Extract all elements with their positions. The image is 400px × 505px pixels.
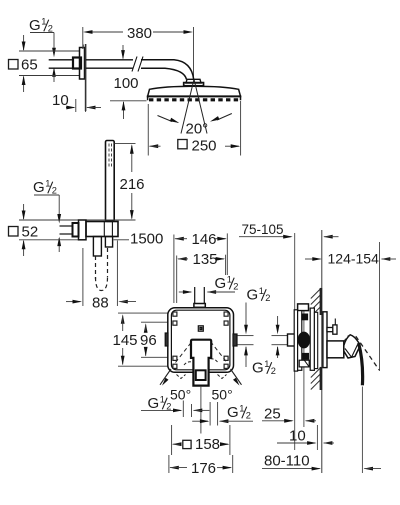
label 50 right	[212, 386, 233, 402]
label square 65	[9, 57, 38, 74]
label 50 left	[170, 386, 191, 402]
plaster min line	[294, 233, 296, 450]
svg-text:124-154: 124-154	[328, 250, 380, 266]
svg-text:1: 1	[45, 179, 50, 189]
dim 380	[83, 25, 193, 42]
dim 80-110 label	[264, 452, 310, 469]
body front extension line	[303, 310, 305, 427]
union top extension line	[19, 219, 136, 221]
bottom port right G1/2 label	[227, 404, 251, 422]
shower arm nut	[73, 58, 81, 69]
hand shower holder body	[86, 222, 118, 237]
head bottom extension line	[110, 100, 147, 102]
hand shower G1/2 leader	[34, 195, 61, 252]
dim 176	[169, 460, 232, 477]
label 1500 leader	[114, 239, 130, 241]
dim 250 extension lines	[148, 101, 240, 156]
svg-text:1: 1	[160, 395, 165, 405]
side stub G1/2 lower label	[252, 359, 276, 377]
dim 80-110	[262, 467, 381, 471]
svg-text:50°: 50°	[212, 386, 233, 402]
valve body top stub	[298, 304, 309, 311]
dim 88	[66, 294, 136, 311]
svg-text:1: 1	[41, 17, 46, 27]
flange top extension line	[19, 50, 79, 52]
diverter knob side	[327, 319, 337, 335]
bottom port left G1/2 label	[148, 395, 172, 413]
dim 146	[174, 231, 227, 248]
dim 10 label	[289, 428, 306, 445]
spray angle arrows	[158, 114, 232, 124]
svg-text:2: 2	[265, 293, 270, 303]
escutcheon side view	[323, 312, 327, 368]
bottom port left G1/2 dim	[141, 401, 209, 418]
wall line top-left	[84, 44, 86, 111]
svg-text:65: 65	[21, 57, 38, 74]
shower arm pipe	[49, 60, 74, 68]
plate screws right column	[224, 312, 228, 368]
closed handle extension line	[361, 387, 363, 474]
lever handle side view	[344, 335, 360, 358]
valve cartridge	[298, 332, 311, 349]
valve detail dark upper	[302, 314, 308, 320]
dim 176 extension lines	[169, 455, 233, 473]
tube break marks	[132, 57, 143, 72]
rough wall line lower	[316, 425, 318, 450]
lever handle square hole	[196, 370, 206, 380]
svg-text:145: 145	[113, 332, 138, 349]
dim 145 top extension	[118, 312, 168, 314]
shower hose dashed	[96, 248, 108, 291]
ball joint	[184, 79, 204, 86]
label 20 deg	[186, 120, 209, 137]
valve detail dark lower	[303, 353, 309, 359]
diverter button	[198, 326, 203, 331]
mixer top stub G1/2 label	[215, 275, 239, 293]
svg-text:135: 135	[193, 251, 218, 268]
valve body bar B	[298, 311, 302, 371]
handle swing dashed lines	[176, 342, 228, 363]
svg-text:2: 2	[48, 23, 53, 33]
dim 75-105	[239, 235, 339, 239]
svg-text:20°: 20°	[186, 120, 209, 137]
svg-text:G: G	[227, 404, 239, 421]
svg-text:52: 52	[22, 224, 39, 241]
svg-text:380: 380	[127, 25, 152, 42]
dim 380 extension ticks	[83, 27, 194, 80]
finished wall line	[321, 230, 323, 473]
mixer cover plate	[171, 310, 230, 370]
mixer top stub	[194, 287, 205, 307]
lever open position dashed	[344, 335, 379, 370]
label square 52	[9, 224, 39, 241]
dim 145	[113, 314, 138, 365]
dim 124-154 right extension	[379, 242, 381, 371]
flange bottom extension line	[19, 75, 79, 77]
lever grip side view	[359, 343, 363, 385]
dim 88 extension lines	[83, 241, 118, 307]
dim 158 extension lines	[172, 425, 230, 455]
wall hatch upper	[311, 288, 322, 317]
svg-text:96: 96	[140, 332, 157, 349]
dim 146 extension lines	[174, 233, 227, 303]
shower arm G1/2 label	[29, 17, 53, 35]
dim 100 text	[114, 75, 139, 92]
svg-text:2: 2	[271, 366, 276, 376]
head shower spray face	[149, 98, 240, 101]
left side clamp tab	[165, 333, 168, 346]
spray angle rays 20 deg	[181, 80, 207, 134]
svg-text:1: 1	[264, 359, 269, 369]
svg-text:10: 10	[289, 428, 306, 445]
dim 52 arrows	[22, 204, 26, 256]
svg-text:G: G	[148, 395, 160, 412]
svg-text:216: 216	[120, 176, 145, 193]
svg-text:100: 100	[114, 75, 139, 92]
svg-text:1: 1	[239, 404, 244, 414]
dim 96 top extension	[141, 321, 168, 323]
holder outlet nipple left	[93, 237, 101, 257]
dim 216 top extension	[115, 143, 136, 145]
dim 96 bottom extension	[141, 356, 168, 358]
hand shower handle	[106, 141, 115, 222]
mixer top stub G1/2 arrows	[179, 290, 235, 294]
hand shower spray face dashes	[109, 144, 112, 169]
svg-text:G: G	[29, 17, 41, 34]
svg-text:G: G	[247, 287, 259, 304]
valve front outlet stub	[288, 334, 295, 346]
dim 124-154	[305, 250, 396, 266]
dim 250	[149, 138, 241, 155]
dim 100 arrows	[121, 45, 125, 119]
svg-text:176: 176	[191, 460, 216, 477]
dashed swing hooks	[177, 359, 227, 379]
plate tab extension lines	[238, 336, 254, 345]
valve body bar A	[294, 310, 297, 371]
svg-text:250: 250	[192, 138, 217, 155]
svg-text:2: 2	[166, 401, 171, 411]
holder outlet nipple right	[105, 237, 112, 248]
side stub G1/2 lower arrows	[276, 316, 280, 358]
angle ray right 50deg	[231, 369, 242, 386]
label 1500	[130, 231, 163, 248]
svg-text:1: 1	[227, 275, 232, 285]
bottom port right G1/2 dim	[192, 402, 253, 426]
union bottom extension line	[19, 239, 78, 241]
valve body mid plate	[310, 308, 314, 370]
dim 216	[120, 144, 145, 219]
dim 135	[177, 251, 225, 268]
svg-text:80-110: 80-110	[264, 452, 310, 469]
plate screws left column	[173, 312, 177, 368]
union nut	[73, 223, 79, 237]
lever hub side view	[327, 341, 344, 358]
dim 75-105 label	[242, 222, 284, 237]
svg-text:1: 1	[259, 286, 264, 296]
svg-text:146: 146	[192, 231, 217, 248]
shower arm outer tube	[86, 60, 133, 68]
svg-text:2: 2	[52, 185, 57, 195]
dim 10 below flange	[52, 92, 101, 112]
angle ray left 50deg	[160, 369, 171, 386]
shower arm curved piece	[141, 60, 194, 80]
head shower body	[147, 86, 242, 100]
mixer rough-in box outline	[168, 308, 234, 373]
dim 96	[140, 323, 157, 356]
side stub G1/2 upper label	[247, 286, 271, 304]
svg-text:2: 2	[233, 281, 238, 291]
hand shower G1/2 label	[33, 179, 57, 197]
valve body back bar	[314, 312, 317, 368]
dim 135 extension lines	[177, 255, 226, 303]
dim 10	[277, 441, 334, 445]
valve detail box with cross	[299, 360, 309, 367]
svg-text:2: 2	[246, 410, 251, 420]
svg-text:75-105: 75-105	[242, 222, 284, 237]
union supply pipe	[60, 226, 73, 234]
dim 158	[172, 436, 230, 453]
side stub extension lines	[272, 336, 288, 345]
dim 25	[262, 419, 316, 423]
svg-text:G: G	[215, 275, 227, 292]
shower arm wall flange	[80, 48, 85, 80]
union wall flange	[79, 220, 87, 240]
dim 25 label	[264, 405, 281, 422]
side stub G1/2 upper arrows	[244, 303, 248, 368]
handle centerline	[200, 386, 202, 434]
mixer lever handle front	[191, 340, 211, 386]
svg-text:25: 25	[264, 405, 281, 422]
dim 145 bottom extension	[118, 365, 168, 367]
svg-text:1500: 1500	[130, 231, 163, 248]
svg-text:50°: 50°	[170, 386, 191, 402]
shower arm G1/2 leader	[30, 33, 56, 83]
wall hatch lower	[311, 367, 322, 390]
svg-text:10: 10	[52, 92, 69, 109]
svg-text:G: G	[33, 179, 45, 196]
svg-text:G: G	[252, 360, 264, 377]
svg-text:158: 158	[195, 436, 220, 453]
dim 65 arrows	[22, 35, 26, 92]
svg-text:88: 88	[92, 294, 109, 311]
right side clamp tab	[233, 334, 237, 346]
